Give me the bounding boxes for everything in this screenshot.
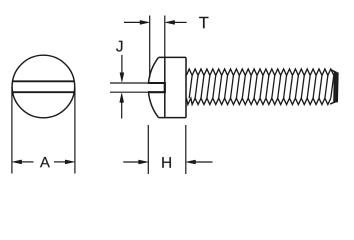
J lower extension line — [110, 91, 148, 93]
label H — [162, 157, 171, 168]
slot bottom line across head — [164, 57, 166, 117]
screw tip chamfer dark band — [334, 72, 337, 103]
A left extension line — [11, 87, 13, 174]
T right extension line — [164, 16, 166, 58]
head bottom edge (side view) — [159, 117, 187, 119]
slot bottom edge (front view) — [13, 91, 75, 93]
H left extension line — [147, 125, 149, 174]
point chamfer line — [333, 72, 336, 103]
T dimension line right tail — [174, 21, 187, 23]
label T — [199, 17, 208, 28]
label J — [116, 41, 122, 52]
J lower arrowhead (pointing up) — [120, 93, 124, 102]
slot bottom edge (side view) — [148, 91, 165, 93]
end chamfer bottom slant — [330, 101, 336, 104]
slot top edge (front view) — [13, 80, 75, 82]
slot top edge (side view) — [148, 82, 165, 84]
H left arrowhead (pointing right) — [139, 160, 148, 164]
A left arrowhead — [12, 160, 21, 164]
H dimension line left tail — [123, 161, 139, 163]
screw head front view circle — [12, 55, 75, 118]
thread crest zigzag bottom — [186, 98, 330, 104]
label A — [40, 157, 50, 167]
H dimension line right tail — [195, 161, 213, 163]
head top edge (side view) — [159, 56, 187, 58]
J lower leader line — [121, 101, 123, 119]
thread flank diagonal lines — [189, 75, 334, 98]
T dimension line left tail — [124, 21, 141, 23]
T right arrowhead (pointing left) — [165, 20, 174, 24]
J upper leader line — [121, 55, 123, 75]
A right arrowhead — [65, 160, 74, 164]
J upper extension line — [110, 82, 148, 84]
head domed face arc lower — [149, 92, 159, 117]
screw end face — [336, 72, 339, 102]
A dimension line right segment — [54, 161, 66, 163]
H right extension line — [185, 125, 187, 174]
head domed face arc upper — [149, 57, 159, 83]
thread crest zigzag top — [186, 69, 333, 75]
J upper arrowhead (pointing down) — [120, 73, 124, 82]
head right edge / shaft junction — [185, 57, 187, 117]
A right extension line — [74, 87, 76, 174]
A dimension line left segment — [21, 161, 34, 163]
slot bottom vertical (side view) — [164, 82, 166, 93]
T left arrowhead (pointing right) — [140, 20, 149, 24]
end chamfer top slant — [330, 69, 336, 72]
H right arrowhead (pointing left) — [186, 160, 195, 164]
T left extension line — [149, 16, 151, 78]
